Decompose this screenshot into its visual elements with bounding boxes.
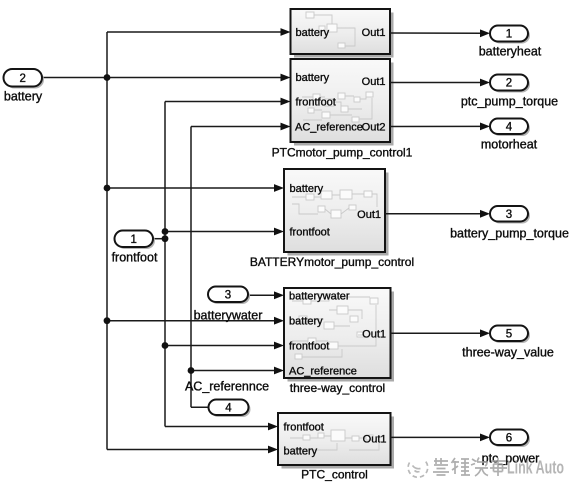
svg-text:frontfoot: frontfoot — [290, 226, 330, 238]
svg-text:battery: battery — [296, 72, 330, 84]
svg-text:PTC_control: PTC_control — [301, 468, 368, 482]
svg-text:PTCmotor_pump_control1: PTCmotor_pump_control1 — [272, 146, 413, 160]
svg-text:Out1: Out1 — [363, 434, 387, 446]
svg-text:1: 1 — [130, 234, 136, 246]
svg-text:battery: battery — [296, 27, 330, 39]
svg-text:frontfoot: frontfoot — [112, 251, 158, 265]
svg-text:AC_reference: AC_reference — [295, 122, 363, 134]
svg-text:batteryheat: batteryheat — [479, 45, 542, 59]
svg-text:batterywater: batterywater — [194, 309, 263, 323]
svg-text:three-way_value: three-way_value — [462, 346, 554, 360]
svg-text:6: 6 — [506, 433, 512, 445]
svg-text:Out1: Out1 — [362, 76, 386, 88]
svg-text:3: 3 — [506, 209, 512, 221]
svg-text:battery: battery — [284, 446, 318, 458]
svg-text:battery_pump_torque: battery_pump_torque — [450, 227, 569, 241]
svg-text:battery: battery — [290, 183, 324, 195]
svg-text:AC_reference: AC_reference — [289, 366, 357, 378]
svg-text:5: 5 — [506, 329, 512, 341]
svg-text:2: 2 — [19, 73, 25, 85]
svg-text:battery: battery — [289, 316, 323, 328]
svg-text:3: 3 — [225, 290, 231, 302]
svg-text:4: 4 — [506, 122, 513, 134]
svg-text:battery: battery — [4, 90, 43, 104]
svg-text:1: 1 — [506, 29, 512, 41]
svg-text:4: 4 — [225, 403, 232, 415]
svg-text:frontfoot: frontfoot — [284, 421, 324, 433]
svg-text:frontfoot: frontfoot — [296, 97, 336, 109]
svg-text:BATTERYmotor_pump_control: BATTERYmotor_pump_control — [250, 255, 414, 269]
svg-text:three-way_control: three-way_control — [290, 381, 385, 395]
svg-text:Out1: Out1 — [357, 209, 381, 221]
svg-text:motorheat: motorheat — [481, 138, 538, 152]
svg-text:2: 2 — [506, 78, 512, 90]
svg-text:AC_referennce: AC_referennce — [185, 380, 269, 394]
svg-text:frontfoot: frontfoot — [289, 341, 329, 353]
svg-text:Out1: Out1 — [362, 27, 386, 39]
svg-text:Out2: Out2 — [362, 122, 386, 134]
svg-text:batterywater: batterywater — [289, 291, 350, 303]
svg-text:Out1: Out1 — [362, 328, 386, 340]
svg-text:Link Auto: Link Auto — [507, 458, 564, 478]
svg-text:ptc_pump_torque: ptc_pump_torque — [461, 95, 558, 109]
